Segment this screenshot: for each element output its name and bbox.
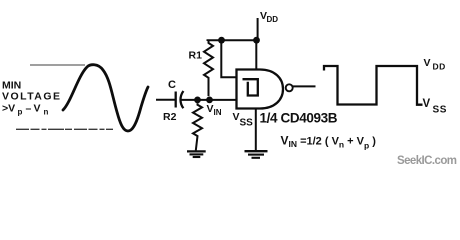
svg-text:V: V	[34, 103, 41, 115]
svg-text:>V: >V	[2, 103, 15, 115]
svg-text:VIN =1/2 ( Vn + Vp ): VIN =1/2 ( Vn + Vp )	[281, 133, 377, 150]
junction VDD rail	[253, 37, 260, 44]
VDD supply	[258, 10, 279, 40]
resistor R1	[189, 40, 214, 96]
input sine waveform	[63, 65, 148, 131]
svg-text:VSS: VSS	[233, 111, 254, 129]
junction rail to gate input A	[218, 37, 225, 44]
svg-text:V: V	[424, 57, 431, 69]
svg-text:DD: DD	[433, 62, 446, 72]
svg-text:C: C	[168, 79, 176, 91]
resistor R2	[163, 103, 202, 150]
Vn reference line	[16, 128, 113, 130]
ground (gate VSS)	[245, 151, 268, 158]
svg-text:p: p	[18, 108, 23, 117]
Vp reference line	[30, 64, 85, 66]
svg-text:V: V	[423, 98, 431, 110]
wire VDD to gate pin 14	[255, 40, 257, 69]
output square waveform	[324, 66, 423, 105]
svg-text:SeekIC.com: SeekIC.com	[397, 155, 457, 167]
capacitor C	[168, 79, 183, 108]
wire VSS pin	[255, 109, 257, 151]
wire R1 top rail	[208, 39, 257, 42]
input label MIN VOLTAGE >Vp-Vn	[2, 80, 60, 117]
node VIN junction R1	[206, 97, 213, 104]
svg-text:VIN: VIN	[207, 103, 222, 117]
svg-text:–: –	[26, 103, 32, 115]
ground (R2)	[187, 151, 206, 157]
svg-text:R2: R2	[163, 111, 177, 123]
svg-text:SS: SS	[433, 105, 448, 116]
wire C to gate input (VIN net)	[182, 99, 237, 101]
svg-text:DD: DD	[267, 15, 279, 24]
Schmitt NAND gate U1 (1/4 CD4093B)	[237, 70, 293, 109]
svg-text:n: n	[44, 108, 49, 117]
node VIN junction R2	[194, 97, 201, 104]
svg-text:VOLTAGE: VOLTAGE	[2, 91, 60, 103]
svg-text:R1: R1	[189, 50, 203, 62]
svg-text:1/4 CD4093B: 1/4 CD4093B	[260, 111, 338, 126]
wire input to C	[156, 99, 175, 101]
wire to gate input A	[221, 40, 236, 77]
wire gate output	[293, 85, 316, 87]
